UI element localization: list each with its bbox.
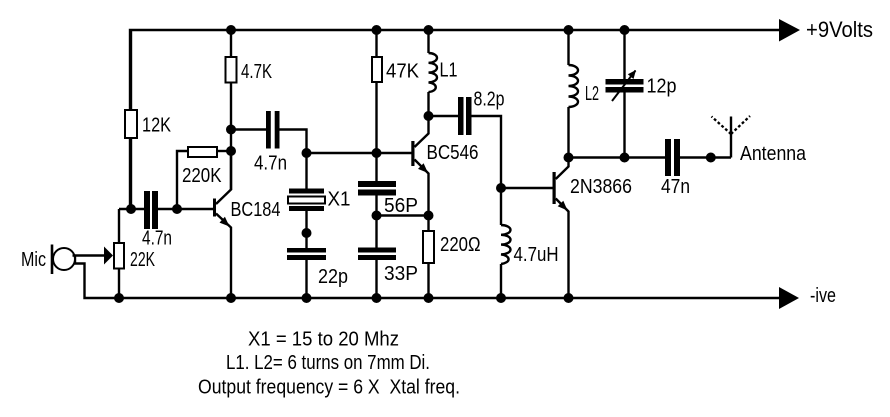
node 22K bottom on -ive rail: [114, 293, 124, 303]
node PA base branch: [496, 183, 506, 193]
wire tap to emitter branch: [377, 214, 429, 216]
node 220R bottom on -ive rail: [424, 293, 434, 303]
node emitter branch top of 220R: [424, 211, 434, 221]
svg-text:220K: 220K: [182, 165, 222, 187]
transistor Q1 BC184: [213, 151, 231, 298]
svg-text:22p: 22p: [318, 266, 348, 288]
svg-text:4.7uH: 4.7uH: [514, 244, 559, 266]
wire crystal top lead: [305, 153, 307, 189]
wire 8.2p to PA base: [472, 116, 502, 188]
capacitor 47n output: [665, 139, 680, 176]
svg-text:Antenna: Antenna: [740, 143, 807, 165]
svg-text:47n: 47n: [661, 176, 690, 198]
resistor 22K: [114, 243, 124, 269]
capacitor 4.7n interstage: [266, 111, 280, 149]
trimmer capacitor 12p: [606, 30, 644, 158]
wire 47K top lead: [375, 30, 377, 57]
svg-text:8.2p: 8.2p: [474, 89, 505, 111]
wire collector to 8.2p: [429, 115, 459, 117]
svg-text:X1 = 15 to 20 Mhz: X1 = 15 to 20 Mhz: [248, 329, 399, 351]
node BC546 collector: [424, 111, 434, 121]
wiper arrow into 22K: [104, 247, 113, 265]
resistor 220R: [423, 231, 434, 263]
resistor 220K: [188, 147, 217, 157]
node crystal branch: [302, 148, 312, 158]
wire crystal bottom lead: [305, 211, 307, 248]
svg-text:-ive: -ive: [810, 285, 836, 307]
inductor 4.7uH: [501, 188, 511, 298]
node antenna junction: [706, 153, 716, 163]
svg-text:Mic: Mic: [21, 249, 46, 271]
wire base net left segment: [119, 208, 144, 210]
wire bottom -ive rail from mic ground jog: [75, 256, 779, 299]
capacitor 8.2p: [458, 97, 472, 135]
wire 220K left leg: [177, 151, 188, 209]
node 12K / 4.7n junction: [126, 204, 136, 214]
wire 22K top lead: [118, 209, 120, 243]
svg-text:+9Volts: +9Volts: [806, 17, 873, 42]
wire 220R top lead: [427, 216, 429, 232]
svg-text:L2: L2: [585, 83, 599, 105]
wire 56P to 33P: [375, 196, 377, 249]
wire 220R bottom lead: [427, 263, 429, 298]
svg-text:X1: X1: [328, 189, 351, 211]
wire 47n to antenna: [680, 156, 731, 158]
capacitor 33P: [358, 248, 396, 261]
svg-text:BC546: BC546: [427, 142, 479, 164]
node L1 top on +9V rail: [424, 25, 434, 35]
node 4.7uH bottom on -ive rail: [496, 293, 506, 303]
antenna: [712, 116, 751, 158]
wire interstage cap to oscillator base net: [280, 130, 307, 154]
resistor 12K: [125, 110, 137, 138]
svg-text:220Ω: 220Ω: [440, 234, 481, 256]
wire 220K right leg: [217, 150, 231, 152]
svg-text:L1. L2= 6 turns on 7mm Di.: L1. L2= 6 turns on 7mm Di.: [226, 352, 430, 374]
inductor L1: [429, 30, 438, 116]
wire 22K bottom lead: [118, 269, 120, 299]
node collector feedback tap: [226, 125, 236, 135]
wire 12K branch vertical: [130, 30, 132, 209]
wire base net right segment: [158, 208, 214, 210]
capacitor 4.7n mic coupling: [144, 191, 158, 229]
svg-text:L1: L1: [440, 60, 458, 82]
wire 47K bottom lead down to 56P: [375, 82, 377, 181]
svg-text:4.7K: 4.7K: [241, 61, 272, 83]
node crystal / 22p junction: [302, 228, 312, 238]
wire 22p bottom lead: [305, 260, 307, 298]
svg-text:4.7n: 4.7n: [142, 228, 172, 250]
node 12p top on +9V rail: [620, 25, 630, 35]
node 33P bottom on -ive rail: [372, 293, 382, 303]
node 4.7K top on +9V rail: [226, 25, 236, 35]
svg-text:47K: 47K: [386, 61, 420, 83]
capacitor 56P: [358, 181, 396, 196]
transistor Q3 2N3866: [553, 158, 569, 299]
node feedback divider tap: [372, 211, 382, 221]
transistor Q2 BC546: [411, 116, 428, 216]
node 22p bottom on -ive rail: [302, 293, 312, 303]
wire top +9V rail with left corner down to bias divider: [130, 30, 779, 209]
resistor 47K: [372, 57, 382, 82]
node 47K / base junction: [372, 148, 382, 158]
+9V supply arrow: [779, 19, 800, 42]
wire 4.7K top lead: [230, 30, 232, 57]
resistor 4.7K: [226, 57, 237, 83]
wire 33P bottom lead: [375, 260, 377, 298]
microphone MIC1: [52, 245, 75, 275]
svg-text:12p: 12p: [647, 76, 677, 98]
svg-text:Output frequency = 6 X Xtal f: Output frequency = 6 X Xtal freq.: [198, 377, 460, 399]
svg-text:22K: 22K: [130, 249, 155, 271]
node BC184 emitter on -ive rail: [226, 293, 236, 303]
svg-text:4.7n: 4.7n: [254, 153, 287, 175]
svg-text:56P: 56P: [384, 195, 418, 217]
svg-text:12K: 12K: [142, 115, 172, 137]
node L2 top on +9V rail: [564, 25, 574, 35]
node tank / collector junction: [564, 153, 574, 163]
svg-text:BC184: BC184: [231, 199, 281, 221]
crystal X1: [288, 189, 325, 212]
node 2N3866 emitter on -ive rail: [564, 293, 574, 303]
wire 4.7K bottom lead down to BC184 collector: [230, 83, 232, 191]
wire mic to pot wiper: [73, 254, 105, 256]
node 220K drop junction: [172, 204, 182, 214]
wire to interstage cap: [231, 128, 266, 130]
wire PA base net: [501, 187, 553, 189]
wire oscillator base net: [307, 152, 413, 154]
svg-text:2N3866: 2N3866: [570, 176, 632, 198]
svg-text:33P: 33P: [384, 263, 418, 285]
wire tank node to 47n: [569, 156, 666, 158]
capacitor 22p: [287, 248, 326, 260]
node 220K right junction: [226, 146, 236, 156]
-ive supply arrow: [779, 287, 799, 309]
inductor L2: [569, 30, 579, 158]
node 12p bottom on tank net: [620, 153, 630, 163]
node 47K top on +9V rail: [372, 25, 382, 35]
